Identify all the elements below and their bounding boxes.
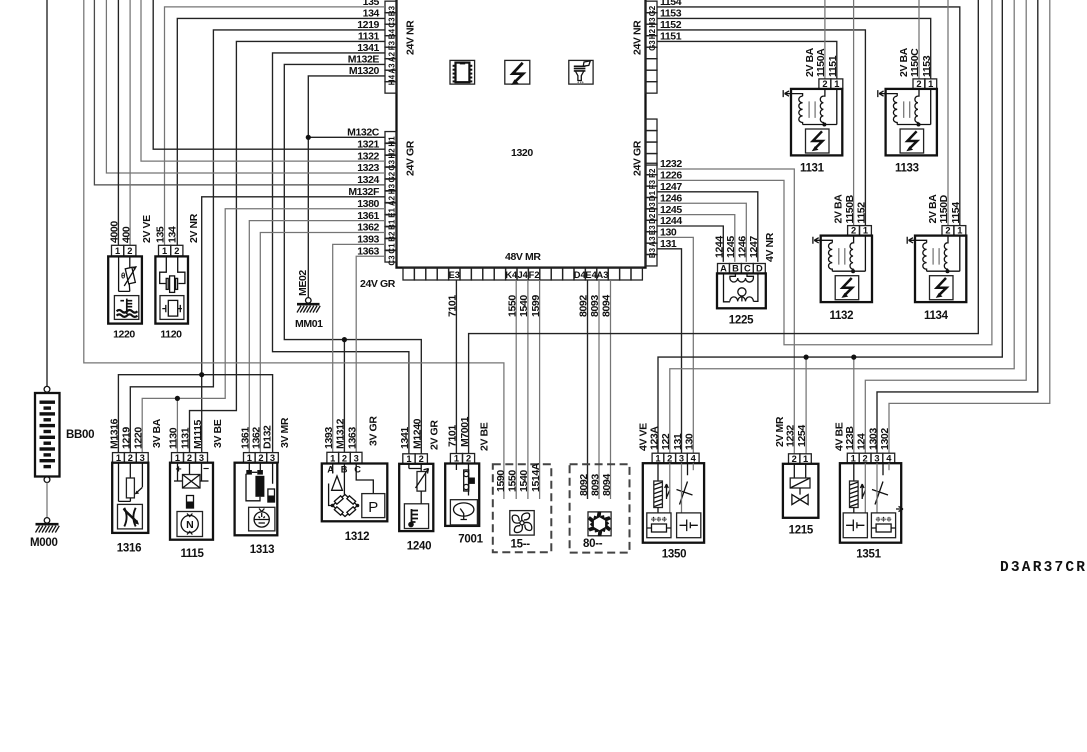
svg-text:2V BA: 2V BA — [804, 47, 816, 77]
svg-text:1302: 1302 — [879, 428, 891, 450]
wire 1245 (ECU D2 to 1225 pin B) — [657, 215, 735, 262]
component 7001 instrument cluster tachometer — [445, 416, 490, 545]
svg-text:2: 2 — [792, 454, 797, 464]
ECU right connector pin column — [646, 1, 658, 266]
dashed unit 80-- air conditioning — [570, 464, 630, 552]
ECU icon: ignition lightning bolt — [505, 60, 530, 85]
svg-text:D2: D2 — [648, 213, 657, 224]
engine ground MM01 / ME02 — [295, 270, 323, 330]
svg-text:2: 2 — [466, 454, 471, 464]
svg-text:2V GR: 2V GR — [429, 420, 441, 450]
svg-text:1151: 1151 — [827, 55, 839, 77]
svg-text:K4: K4 — [505, 270, 518, 280]
svg-text:2: 2 — [851, 226, 856, 236]
wire 1321 (from top edge to ECU H2) — [153, 0, 385, 149]
svg-text:1153: 1153 — [921, 55, 933, 77]
component 1120 knock sensor — [155, 213, 200, 340]
svg-text:1152: 1152 — [856, 202, 868, 224]
svg-text:1316: 1316 — [117, 543, 141, 555]
svg-text:8094: 8094 — [601, 295, 613, 317]
svg-text:1133: 1133 — [895, 163, 919, 175]
wire M132C (ECU H1 to ground riser) — [308, 136, 385, 138]
svg-text:A2: A2 — [387, 51, 396, 62]
wire 1130 branch (rail 1380 to 1115 pin1) — [176, 398, 178, 452]
wire 1153 (ECU H3 to coil 1133 pin1) — [657, 18, 931, 79]
wire 1393 (ECU C1 to 1312 pin A) — [333, 244, 385, 452]
svg-text:3: 3 — [354, 454, 359, 464]
wire M132E (ECU A3 ground rail to M1240) — [284, 64, 421, 453]
svg-text:2: 2 — [127, 246, 132, 256]
svg-text:123A: 123A — [648, 426, 660, 450]
component 1350 injection pump relay — [638, 423, 705, 561]
svg-text:−: − — [203, 463, 209, 475]
ECU icon: fuel injector — [569, 60, 593, 84]
svg-text:B3: B3 — [648, 247, 657, 258]
svg-text:1: 1 — [863, 226, 868, 236]
svg-text:C: C — [354, 464, 361, 474]
svg-text:24V NR: 24V NR — [405, 20, 417, 55]
component 1220 coolant temperature sensor — [108, 215, 153, 341]
labels of ECU bottom wires — [447, 295, 613, 317]
svg-text:A3: A3 — [597, 270, 609, 280]
wire 8093 (ECU E4 to 80--) — [598, 280, 600, 499]
svg-text:2V NR: 2V NR — [188, 213, 200, 243]
svg-text:2V VE: 2V VE — [141, 215, 153, 243]
junction M132E/M1312 — [342, 337, 347, 342]
svg-text:8092: 8092 — [578, 474, 590, 496]
svg-text:4000: 4000 — [109, 221, 121, 243]
component 1312 manifold pressure sensor — [322, 416, 388, 543]
svg-text:A2: A2 — [387, 195, 396, 206]
svg-text:3V BE: 3V BE — [212, 419, 224, 448]
svg-text:3V GR: 3V GR — [368, 416, 380, 446]
ignition coil 1132 — [813, 194, 872, 322]
wire 124 (1351 pin2 to top edge right) — [865, 0, 1026, 453]
component 1316 throttle potentiometer — [109, 418, 163, 554]
svg-text:+: + — [176, 464, 182, 476]
wire 7101 (ECU E3 to 7001 pin1) — [455, 280, 457, 454]
wire 1363 (ECU C3 to 1312 pin C) — [356, 256, 385, 452]
ignition coil 1131 — [783, 47, 843, 174]
svg-text:1: 1 — [803, 454, 808, 464]
svg-text:24V GR: 24V GR — [405, 140, 417, 176]
svg-text:1245: 1245 — [725, 236, 737, 258]
wire 1324 (from top edge to ECU H3) — [94, 0, 385, 185]
chassis ground M000 — [30, 518, 59, 549]
wire 130 (ECU A3 to 1350 pin4) — [657, 237, 693, 453]
svg-text:2: 2 — [822, 79, 827, 89]
svg-text:1150A: 1150A — [815, 48, 827, 77]
svg-text:1247: 1247 — [748, 236, 760, 258]
svg-text:H2: H2 — [648, 28, 657, 39]
wire M132F (ECU A2 to 1115 pin3 M1115) — [202, 197, 385, 453]
svg-text:H4: H4 — [387, 74, 396, 85]
svg-text:134: 134 — [167, 226, 179, 243]
svg-text:2V BA: 2V BA — [898, 47, 910, 77]
wire 1302 (1351 pin4 to top edge right) — [889, 0, 1050, 453]
ignition coil 1134 — [907, 194, 966, 322]
svg-text:15--: 15-- — [511, 539, 531, 551]
right pin wire number labels — [660, 0, 682, 250]
svg-text:1: 1 — [175, 453, 180, 463]
svg-text:1219: 1219 — [121, 427, 133, 449]
svg-text:1: 1 — [851, 453, 856, 463]
svg-text:G2: G2 — [648, 5, 657, 16]
svg-text:1514A: 1514A — [530, 462, 542, 492]
svg-text:1312: 1312 — [345, 531, 369, 543]
svg-text:H2: H2 — [387, 148, 396, 159]
svg-text:2: 2 — [419, 454, 424, 464]
svg-text:48V MR: 48V MR — [505, 251, 541, 263]
svg-text:8093: 8093 — [589, 295, 601, 317]
svg-text:1363: 1363 — [346, 427, 358, 449]
wire 1361 (ECU B1 to 1313 pin1) — [249, 221, 385, 453]
svg-text:M1115: M1115 — [192, 419, 204, 449]
svg-text:131: 131 — [672, 433, 684, 450]
wire 134 (knock sensor pin2 to ECU C3) — [177, 18, 385, 245]
svg-text:1220: 1220 — [133, 427, 145, 449]
svg-text:J4: J4 — [518, 270, 529, 280]
svg-text:E3: E3 — [648, 225, 657, 235]
svg-text:1115: 1115 — [180, 548, 204, 560]
svg-text:1: 1 — [655, 453, 660, 463]
svg-text:D1: D1 — [648, 190, 657, 201]
svg-text:M000: M000 — [30, 537, 58, 549]
svg-text:3: 3 — [199, 453, 204, 463]
svg-text:C: C — [744, 264, 751, 274]
component 1240 coolant temperature sensor (gauge) — [399, 418, 440, 552]
svg-text:80--: 80-- — [583, 538, 603, 550]
wire 1150D (top edge to coil 1134 pin2) — [947, 0, 949, 226]
component 1215 canister purge solenoid valve — [774, 416, 819, 536]
svg-text:H3: H3 — [648, 17, 657, 28]
svg-text:7001: 7001 — [458, 533, 483, 545]
svg-text:D3AR37CR: D3AR37CR — [1000, 560, 1087, 576]
wire 1323 (from top edge to ECU G2) — [106, 0, 385, 173]
svg-text:2: 2 — [342, 454, 347, 464]
svg-text:1132: 1132 — [830, 310, 854, 322]
svg-text:1350: 1350 — [662, 549, 686, 561]
svg-text:123B: 123B — [844, 426, 856, 450]
wire 1150C (top edge to coil 1133 pin2) — [918, 0, 920, 79]
svg-text:A3: A3 — [648, 236, 657, 247]
svg-text:1540: 1540 — [518, 470, 530, 492]
wire 1303 (1351 pin3 to top edge right) — [877, 0, 1038, 453]
svg-text:M1240: M1240 — [412, 418, 424, 449]
svg-text:1320: 1320 — [511, 147, 533, 159]
svg-text:2: 2 — [945, 226, 950, 236]
svg-text:M7001: M7001 — [459, 416, 471, 447]
svg-text:1232: 1232 — [785, 425, 797, 447]
svg-text:F3: F3 — [387, 40, 396, 50]
svg-text:400: 400 — [120, 226, 132, 243]
svg-text:B3: B3 — [387, 5, 396, 16]
svg-text:3: 3 — [270, 453, 275, 463]
svg-text:1240: 1240 — [407, 541, 431, 553]
svg-text:A: A — [720, 264, 727, 274]
svg-text:8093: 8093 — [589, 474, 601, 496]
wire 8094 (ECU A3 to 80--) — [610, 280, 612, 499]
wire M1320 (ECU H4 to engine ground MM01) — [308, 76, 385, 298]
svg-text:2: 2 — [174, 246, 179, 256]
svg-text:1244: 1244 — [714, 236, 726, 258]
wire 4000 (1220 pin1 to top edge) — [117, 0, 119, 245]
svg-text:1254: 1254 — [796, 425, 808, 447]
wire 8092 (ECU D4 to 80--) — [587, 280, 589, 499]
wire 123B branch (123A rail to 1351 pin1) — [853, 357, 855, 453]
svg-text:2: 2 — [187, 453, 192, 463]
wire 1341 (ECU A2 to 1240 pin1) — [273, 53, 409, 454]
svg-text:2V BA: 2V BA — [833, 194, 845, 224]
wire 1226 (ECU F3 to top edge right) — [657, 0, 992, 345]
svg-text:4V VE: 4V VE — [638, 423, 650, 451]
svg-text:1131: 1131 — [800, 163, 825, 175]
wire 1254 branch (123A rail to 1215 pin1) — [805, 357, 807, 454]
svg-text:D3: D3 — [648, 202, 657, 213]
wire 135 (knock sensor pin1 to ECU B3) — [165, 7, 386, 245]
svg-text:1540: 1540 — [518, 295, 530, 317]
svg-text:G2: G2 — [387, 171, 396, 182]
wire 1131 (ECU F3 to 1115 pin2) — [190, 41, 386, 452]
ECU engine control unit 1320 body — [397, 0, 646, 268]
svg-text:D132: D132 — [262, 425, 274, 449]
svg-text:A3: A3 — [387, 63, 396, 74]
svg-text:P: P — [368, 499, 378, 516]
wire 1540 (ECU J4 to 15--) — [527, 280, 529, 499]
svg-text:B2: B2 — [387, 231, 396, 242]
wire 1152 (ECU H2 to coil 1132 pin1) — [657, 30, 865, 226]
svg-text:1120: 1120 — [160, 329, 182, 341]
svg-text:θ: θ — [121, 272, 125, 281]
svg-text:H3: H3 — [387, 183, 396, 194]
wire 1550 (ECU K4 to 15--) — [515, 280, 517, 499]
svg-text:2: 2 — [667, 453, 672, 463]
svg-text:1303: 1303 — [867, 428, 879, 450]
svg-text:1: 1 — [928, 79, 933, 89]
svg-text:3: 3 — [679, 453, 684, 463]
wire 1150A (top edge to coil 1131 pin2) — [824, 0, 826, 79]
junction M1316 rail / M1115 — [199, 372, 204, 377]
junction M1320/M132C — [306, 135, 311, 140]
wire 123A (1350 pin1 to top edge right) — [658, 0, 1002, 453]
wire M1312 branch (rail to 1312 pin B) — [343, 340, 345, 453]
svg-text:❉❉❉: ❉❉❉ — [875, 516, 892, 524]
svg-text:MM01: MM01 — [295, 318, 323, 330]
svg-text:B4: B4 — [387, 28, 396, 39]
svg-text:3: 3 — [140, 453, 145, 463]
svg-text:24V GR: 24V GR — [632, 140, 644, 176]
svg-text:2: 2 — [916, 79, 921, 89]
svg-text:7101: 7101 — [447, 425, 459, 447]
wire battery negative to ground M000 — [46, 483, 48, 518]
wire 1590 (top edge to fan unit 15--) — [84, 0, 504, 499]
wire M1316-D132 rail (1316 pin1 to 1313 pin3) — [118, 375, 272, 453]
svg-text:3V MR: 3V MR — [279, 417, 291, 448]
wire battery positive BB00 to top edge — [46, 0, 48, 386]
component 1313 vehicle speed sensor — [235, 417, 291, 556]
svg-text:8092: 8092 — [578, 295, 590, 317]
svg-text:F2: F2 — [529, 270, 540, 280]
svg-text:2: 2 — [128, 453, 133, 463]
svg-text:24V GR: 24V GR — [360, 278, 396, 290]
svg-text:1: 1 — [330, 454, 335, 464]
svg-text:1550: 1550 — [506, 295, 518, 317]
wire 400 (1220 pin2 to top edge) — [129, 0, 131, 245]
component 1351 fuel pump relay — [834, 422, 903, 560]
left pin wire number labels — [347, 0, 380, 257]
svg-text:1154: 1154 — [950, 202, 962, 224]
svg-text:M1316: M1316 — [109, 418, 121, 449]
svg-text:1351: 1351 — [856, 549, 881, 561]
svg-text:1130: 1130 — [168, 427, 180, 449]
svg-text:❉❉❉: ❉❉❉ — [651, 516, 668, 524]
svg-text:1150C: 1150C — [909, 48, 921, 77]
svg-text:1313: 1313 — [250, 544, 274, 556]
svg-text:C3: C3 — [387, 255, 396, 266]
svg-text:1: 1 — [957, 226, 962, 236]
svg-text:1599: 1599 — [530, 295, 542, 317]
svg-text:2V BA: 2V BA — [927, 194, 939, 224]
wire 1247 (ECU D1 to 1225 pin D) — [657, 192, 758, 262]
ECU icon: microprocessor chip — [450, 60, 475, 84]
ECU bottom connector pin row — [403, 268, 642, 280]
wire 1151 (ECU G3 to coil 1131 pin1) — [657, 41, 837, 79]
wire 122 (1350 pin2 to top edge right) — [670, 0, 1014, 453]
svg-text:ME02: ME02 — [297, 270, 309, 296]
svg-text:1393: 1393 — [323, 427, 335, 449]
svg-text:BB00: BB00 — [66, 429, 94, 441]
svg-text:122: 122 — [660, 433, 672, 450]
svg-text:H1: H1 — [387, 136, 396, 147]
svg-text:B: B — [732, 264, 739, 274]
ignition coil 1133 — [878, 47, 937, 174]
svg-text:F3: F3 — [648, 179, 657, 189]
battery BB00 — [35, 386, 94, 482]
svg-text:1215: 1215 — [789, 525, 814, 537]
svg-text:D: D — [756, 264, 763, 274]
wire 1232 (ECU F2 to 1215 pin2) — [657, 169, 794, 454]
svg-text:4V NR: 4V NR — [764, 232, 776, 262]
wire 1219 (ECU B4 to 1316 pin2) — [130, 30, 385, 453]
svg-text:124: 124 — [856, 433, 868, 450]
svg-text:2: 2 — [258, 453, 263, 463]
wire 1362 (ECU B2 to 1313 pin2) — [260, 233, 385, 453]
svg-text:1: 1 — [406, 454, 411, 464]
svg-text:G3: G3 — [648, 40, 657, 51]
junction 123A/1254 — [804, 355, 809, 360]
svg-text:2V BE: 2V BE — [479, 422, 491, 451]
svg-text:N: N — [186, 519, 193, 531]
svg-text:1: 1 — [247, 453, 252, 463]
junction 1380/1130 — [175, 396, 180, 401]
junction 123A/123B — [851, 355, 856, 360]
wire 1150B (top edge to coil 1132 pin2) — [853, 0, 855, 226]
svg-text:1150B: 1150B — [844, 194, 856, 223]
svg-text:1246: 1246 — [737, 236, 749, 258]
wire 1154 (ECU G2 to coil 1134 pin1) — [657, 7, 960, 226]
wire 1246 (ECU D3 to 1225 pin C) — [657, 203, 746, 262]
svg-text:E1: E1 — [387, 207, 396, 217]
svg-text:3V BA: 3V BA — [151, 418, 163, 448]
svg-text:4V BE: 4V BE — [834, 422, 846, 451]
svg-text:M1312: M1312 — [335, 418, 347, 449]
svg-text:130: 130 — [684, 433, 696, 450]
svg-text:8094: 8094 — [601, 474, 613, 496]
wire 1599 / 1514A (ECU F2 to 15--) — [539, 280, 541, 499]
svg-text:B1: B1 — [387, 219, 396, 230]
svg-text:1: 1 — [454, 454, 459, 464]
svg-text:C3: C3 — [387, 17, 396, 28]
svg-text:E3: E3 — [449, 270, 460, 280]
svg-text:C1: C1 — [387, 243, 396, 254]
svg-text:24V NR: 24V NR — [632, 20, 644, 55]
wire 1322 (from top edge to ECU G3) — [141, 0, 385, 161]
svg-text:1131: 1131 — [180, 427, 192, 449]
svg-text:2: 2 — [862, 453, 867, 463]
svg-text:1: 1 — [834, 79, 839, 89]
svg-text:1: 1 — [115, 246, 120, 256]
wire 131 (ECU B3 to 1350 pin3) — [657, 249, 682, 453]
svg-text:G3: G3 — [387, 159, 396, 170]
svg-text:1150D: 1150D — [938, 194, 950, 223]
svg-text:1225: 1225 — [729, 315, 754, 327]
svg-text:1134: 1134 — [924, 310, 949, 322]
svg-text:1: 1 — [116, 453, 121, 463]
svg-text:1590: 1590 — [495, 470, 507, 492]
svg-text:135: 135 — [155, 226, 167, 243]
ECU left connector pin column — [385, 1, 397, 265]
wire 1244 (ECU E3 to 1225 pin A) — [657, 226, 723, 262]
wire 1380 (ECU E1 to 1316 pin3 and 1115 pin1) — [142, 209, 385, 453]
wire M7001 (7001 pin2 to top edge right) — [469, 0, 979, 454]
svg-text:1341: 1341 — [399, 427, 411, 449]
svg-text:1: 1 — [162, 246, 167, 256]
svg-text:1550: 1550 — [507, 470, 519, 492]
svg-text:F2: F2 — [648, 168, 657, 178]
component 1115 idle stepper motor — [168, 419, 224, 560]
svg-text:3: 3 — [874, 453, 879, 463]
svg-text:7101: 7101 — [447, 295, 459, 317]
svg-text:4: 4 — [886, 453, 892, 463]
svg-text:4: 4 — [691, 453, 697, 463]
dashed unit 15-- engine cooling fan — [493, 462, 552, 552]
svg-text:1220: 1220 — [113, 329, 135, 341]
component 1225 ignition coil assembly connector — [714, 232, 776, 326]
svg-text:2V MR: 2V MR — [774, 416, 786, 447]
